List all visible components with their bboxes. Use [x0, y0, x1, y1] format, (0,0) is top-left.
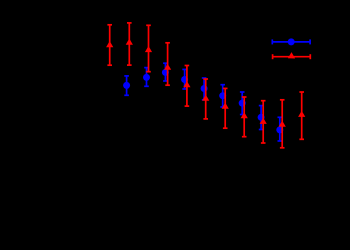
red series point 1: bottom cap — [107, 64, 112, 66]
blue series point 1: error bar line — [126, 76, 128, 95]
blue series point 1: top cap — [124, 75, 129, 77]
blue series point 6: error bar line — [222, 85, 224, 107]
red series point 4: top cap — [165, 42, 170, 44]
red series point 7: triangle marker — [222, 103, 229, 109]
red series point 3: error bar line — [148, 25, 150, 71]
red series point 8: top cap — [242, 96, 247, 98]
red series point 7: top cap — [223, 87, 228, 89]
red series point 1: error bar line — [109, 25, 111, 65]
red series point 3: triangle marker — [145, 46, 152, 52]
blue series point 9: top cap — [278, 116, 283, 118]
blue series point 3: circle marker — [162, 69, 169, 76]
legend blue entry: horizontal errorbar line with end caps — [272, 41, 310, 43]
blue series point 3: bottom cap — [163, 80, 168, 82]
red series point 5: triangle marker — [183, 81, 190, 87]
blue series point 4: top cap — [182, 68, 187, 70]
blue series point 6: top cap — [220, 84, 225, 86]
blue series point 5: circle marker — [201, 85, 208, 92]
blue series point 2: bottom cap — [144, 85, 149, 87]
blue series point 5: bottom cap — [202, 99, 207, 101]
legend red entry: triangle marker — [288, 52, 295, 58]
red series point 6: triangle marker — [202, 95, 209, 101]
legend blue entry: circle marker — [288, 38, 295, 45]
blue series point 3: error bar line — [164, 63, 166, 81]
blue series point 1: bottom cap — [124, 94, 129, 96]
red series point 9: triangle marker — [260, 118, 267, 124]
blue series point 2: circle marker — [143, 74, 150, 81]
red series point 10: triangle marker — [279, 121, 286, 127]
blue series point 4: error bar line — [184, 69, 186, 89]
red series point 2: top cap — [127, 22, 132, 24]
red series point 9: error bar line — [262, 101, 264, 143]
red series point 6: top cap — [203, 78, 208, 80]
red series point 5: bottom cap — [185, 105, 190, 107]
blue series point 8: top cap — [259, 105, 264, 107]
blue series point 2: error bar line — [146, 68, 148, 87]
blue series point 3: top cap — [163, 62, 168, 64]
blue series point 8: circle marker — [258, 114, 265, 121]
red series point 2: error bar line — [128, 23, 130, 65]
red series point 7: bottom cap — [223, 127, 228, 129]
red series point 10: bottom cap — [280, 147, 285, 149]
red series point 8: error bar line — [243, 97, 245, 137]
legend red entry: horizontal errorbar line with end caps — [273, 56, 311, 58]
blue series point 5: top cap — [202, 77, 207, 79]
red series point 10: error bar line — [281, 100, 283, 148]
blue series point 9: bottom cap — [278, 140, 283, 142]
blue series point 7: error bar line — [241, 92, 243, 115]
red series point 11: bottom cap — [299, 138, 304, 140]
blue series point 5: error bar line — [203, 78, 205, 100]
blue series point 8: bottom cap — [259, 129, 264, 131]
red series point 11: error bar line — [301, 92, 303, 139]
blue series point 9: error bar line — [279, 117, 281, 141]
blue series point 6: circle marker — [219, 92, 226, 99]
red series point 2: triangle marker — [126, 39, 133, 45]
blue series point 6: bottom cap — [220, 106, 225, 108]
red series point 6: bottom cap — [203, 118, 208, 120]
red series point 8: bottom cap — [242, 136, 247, 138]
red series point 5: error bar line — [186, 66, 188, 107]
red series point 4: bottom cap — [165, 84, 170, 86]
red series point 3: bottom cap — [146, 71, 151, 73]
red series point 1: top cap — [107, 24, 112, 26]
red series point 1: triangle marker — [106, 41, 113, 47]
blue series point 7: bottom cap — [240, 114, 245, 116]
red series point 4: triangle marker — [164, 64, 171, 70]
blue series point 2: top cap — [144, 67, 149, 69]
blue series point 9: circle marker — [276, 126, 283, 133]
red series point 8: triangle marker — [241, 112, 248, 118]
red series point 6: error bar line — [205, 79, 207, 119]
red series point 10: top cap — [280, 99, 285, 101]
red series point 2: bottom cap — [127, 64, 132, 66]
blue series point 4: circle marker — [181, 76, 188, 83]
red series point 7: error bar line — [224, 88, 226, 128]
red series point 9: top cap — [261, 100, 266, 102]
red series point 5: top cap — [185, 65, 190, 67]
blue series point 7: top cap — [240, 91, 245, 93]
blue series point 8: error bar line — [260, 106, 262, 130]
red series point 11: triangle marker — [298, 111, 305, 117]
red series point 9: bottom cap — [261, 142, 266, 144]
red series point 4: error bar line — [167, 43, 169, 85]
blue series point 4: bottom cap — [182, 88, 187, 90]
red series point 11: top cap — [299, 91, 304, 93]
blue series point 7: circle marker — [239, 100, 246, 107]
blue series point 1: circle marker — [123, 82, 130, 89]
red series point 3: top cap — [146, 24, 151, 26]
